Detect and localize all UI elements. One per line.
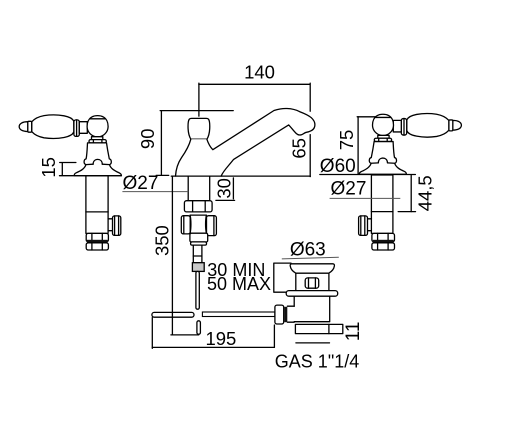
sphere cap seam [90,118,105,120]
svg-text:11: 11 [343,322,364,342]
drain lower body [294,296,330,322]
popup adjuster nut [192,263,204,272]
handle collar disc [401,119,406,135]
right valve handle lever group (mirrored) [359,114,461,175]
popup rod [196,271,199,309]
svg-text:50 MAX: 50 MAX [207,274,271,294]
thread end line [296,342,330,344]
base collar [89,140,106,143]
port opening lines [287,305,294,307]
left valve handle lever group [19,115,121,176]
slot detail [305,278,319,288]
tee right port [207,216,217,236]
dark seal band [87,240,108,243]
popup rod lower segment [197,321,201,335]
popup stem [193,245,202,263]
linkage nut [275,305,284,324]
dimension 350 [152,176,199,335]
hex nut [372,233,395,241]
svg-text:Ø60: Ø60 [320,156,356,177]
side port nut [359,216,368,236]
spout cap head [188,118,210,139]
spout body and arm [176,108,315,176]
cylinder divider [86,211,108,213]
sphere cap seam [376,116,391,118]
handle neck [393,120,401,132]
horizontal lever bar [152,312,194,317]
tee lower block [190,233,208,242]
svg-text:Ø27: Ø27 [331,179,367,200]
dimension 90 [137,111,233,176]
dimension 30 [214,178,235,201]
svg-text:75: 75 [336,130,357,151]
right valve lower column [359,175,395,250]
tee left port [181,216,190,234]
svg-text:195: 195 [205,328,236,349]
spout cap waist line [191,138,207,140]
min-max bracket [274,263,291,292]
spout shank [187,176,189,201]
dimension 15 [38,157,76,178]
svg-text:44,5: 44,5 [415,175,436,211]
valve sphere body [87,116,108,137]
side port stubs [108,218,112,220]
handle neck [79,122,87,134]
dimension 195 [152,318,274,349]
svg-text:350: 350 [152,225,173,256]
cylinder divider [371,211,393,213]
side port stubs [368,218,372,220]
dimension 11 [343,322,364,342]
bottom nut [86,243,108,250]
funnel top [290,264,334,273]
linkage rod to drain [202,312,275,317]
sphere stem [378,135,389,138]
shank hex nut [184,201,212,212]
label diameter 63 [282,239,339,260]
label diameter 27 center [122,173,188,194]
bell ring bumps [93,159,102,164]
tee flange bar [191,242,207,245]
center baseline [171,175,310,177]
handle egg grip [32,115,74,138]
left baseline [60,175,122,177]
svg-text:Ø63: Ø63 [290,239,326,260]
dark seal band [284,307,287,322]
sphere stem [92,137,103,140]
handle collar disc [74,120,79,136]
valve sphere body [373,114,394,135]
svg-text:90: 90 [137,129,158,150]
bottom nut [372,243,395,250]
label diameter 27 right [330,179,401,200]
dimension 140 [199,62,310,177]
svg-text:140: 140 [244,62,275,83]
base collar [374,138,391,141]
dimension 75 [336,117,376,175]
handle knob ring [28,121,32,132]
svg-text:30: 30 [214,178,235,199]
side port nut [113,216,121,236]
tailpiece [295,324,342,333]
right baseline [320,174,416,176]
left valve lower column [86,176,121,250]
svg-text:GAS 1"1/4: GAS 1"1/4 [275,351,359,371]
bell escutcheon [359,142,406,175]
dimension 44,5 [398,175,435,211]
svg-text:15: 15 [38,157,59,178]
drain assembly [274,263,343,343]
handle knob ring [449,120,453,131]
label 30 MIN 50 MAX [207,260,271,294]
svg-text:65: 65 [289,138,310,159]
drain upper body [296,273,329,290]
handle egg grip [407,114,449,137]
bell ring bumps [378,158,387,163]
valve cylinder [86,176,108,234]
svg-text:Ø27: Ø27 [123,173,159,194]
hex nut [86,233,108,241]
bell escutcheon [74,143,121,176]
handle end knob [453,120,462,130]
flange [286,291,338,297]
tee barrel [190,215,206,233]
dark seal band [373,240,394,243]
valve cylinder [371,175,393,233]
handle end knob [19,122,28,132]
